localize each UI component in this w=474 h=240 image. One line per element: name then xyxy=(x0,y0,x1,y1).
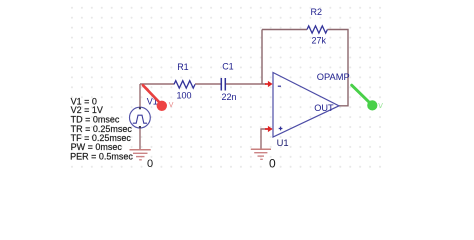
pin arrow inverting input xyxy=(265,81,273,87)
svg-text:OUT: OUT xyxy=(314,103,334,113)
label 0 xyxy=(269,157,276,171)
svg-text:PER = 0.5msec: PER = 0.5msec xyxy=(70,152,133,162)
svg-text:22n: 22n xyxy=(222,92,237,102)
resistor R1 xyxy=(174,81,195,88)
svg-text:V: V xyxy=(169,102,174,109)
svg-text:R1: R1 xyxy=(177,62,189,72)
svg-text:PW = 0msec: PW = 0msec xyxy=(71,142,123,152)
voltage source V1 xyxy=(130,107,151,128)
label OPAMP xyxy=(317,72,350,82)
value 27k xyxy=(312,35,327,45)
resistor R2 xyxy=(307,26,327,33)
svg-text:V: V xyxy=(378,103,383,110)
label R2 xyxy=(311,7,323,17)
wire xyxy=(328,30,349,106)
label V1 xyxy=(147,96,158,106)
svg-text:100: 100 xyxy=(177,91,192,101)
wire xyxy=(262,29,307,31)
value label source parameters xyxy=(70,97,133,162)
wire xyxy=(139,84,141,107)
wire xyxy=(140,83,266,85)
label U1 xyxy=(277,137,289,148)
svg-text:OPAMP: OPAMP xyxy=(317,72,350,82)
value 100 xyxy=(177,91,192,101)
svg-text:0: 0 xyxy=(147,158,153,170)
wire xyxy=(261,129,272,149)
voltage probe V (red) xyxy=(143,85,174,111)
label R1 xyxy=(177,62,189,72)
svg-text:R2: R2 xyxy=(311,7,323,17)
label OUT xyxy=(314,103,334,113)
ground xyxy=(251,149,271,159)
op-amp U1 xyxy=(273,73,339,138)
svg-text:U1: U1 xyxy=(277,137,289,148)
svg-text:0: 0 xyxy=(269,157,276,171)
capacitor C1 xyxy=(221,78,225,91)
pin arrow non-inverting input xyxy=(265,126,273,132)
voltage probe V (green) xyxy=(351,85,383,111)
value 22n xyxy=(222,92,237,102)
wire xyxy=(139,128,141,150)
label C1 xyxy=(222,62,234,72)
node feedback junction xyxy=(261,30,263,85)
ground xyxy=(130,150,151,160)
svg-text:27k: 27k xyxy=(312,35,327,45)
label 0 xyxy=(147,158,153,170)
svg-text:C1: C1 xyxy=(222,62,234,72)
